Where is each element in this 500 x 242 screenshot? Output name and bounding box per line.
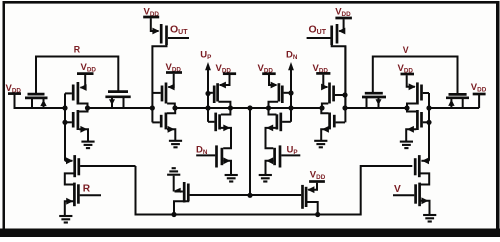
wire M23 drain to M24 gate <box>190 194 302 196</box>
svg-text:DN: DN <box>196 145 208 157</box>
wire inverter1 out to INV2 in <box>88 107 153 109</box>
transistor M6 (NMOS of inverter2) <box>152 108 175 140</box>
node inverter2 output <box>172 105 177 110</box>
ground inverter1m <box>400 142 413 149</box>
power VDD inverter1 <box>77 62 96 74</box>
node label UP top <box>200 50 211 62</box>
node inverter1m output <box>404 105 409 110</box>
power VDD inverter1m <box>398 63 415 75</box>
ground symbol inverted above M23 <box>167 168 180 191</box>
node label DN top <box>286 50 298 62</box>
node UP rail node-row junction <box>205 105 210 110</box>
wire bottom rail <box>136 166 413 215</box>
node label DN gate <box>196 145 208 157</box>
node inverter1 gate-NMOS junction <box>62 120 67 125</box>
power VDD branch3 <box>216 63 237 75</box>
transistor M22 (lower left chain, gate R) <box>65 183 101 215</box>
node inverter2 input <box>150 105 155 110</box>
node inverter2m input <box>342 105 347 110</box>
ground branch3 <box>225 175 238 182</box>
wire inverter1 gate rail <box>64 93 66 160</box>
wire inverter2 out to UP rail <box>175 107 208 109</box>
ground lower left <box>59 216 72 223</box>
transistor M14 (OUT device right) <box>332 19 346 108</box>
wire R net <box>36 57 118 95</box>
node label R gate <box>83 184 91 195</box>
transistor M9 (PMOS mid of branch3) <box>208 108 231 148</box>
transistor M21 (upper left chain) <box>65 155 136 184</box>
svg-text:DN: DN <box>286 50 298 62</box>
power VDD supply right <box>471 82 487 94</box>
ground lower right <box>423 215 436 222</box>
transistor M17 (MOS cap, gate to V) <box>362 93 386 108</box>
node M23 source on rail <box>171 212 176 217</box>
node inverter1 output <box>85 105 90 110</box>
svg-text:VDD: VDD <box>471 82 487 94</box>
ground inverter2 <box>169 141 182 148</box>
node center rail top <box>247 105 252 110</box>
node label OUT right <box>309 24 327 37</box>
wire node row UP-to-branch3 <box>208 107 230 109</box>
wire node row right of DN <box>291 107 322 109</box>
transistor M13 (NMOS UP of branch4) <box>266 128 301 174</box>
wire OUT stub left <box>168 37 189 39</box>
wire MO2 source rail <box>344 46 346 122</box>
node label V <box>403 45 409 55</box>
power VDD for M24 <box>309 170 326 182</box>
wire OUT stub right <box>307 37 331 39</box>
wire UP rail with arrow <box>205 62 211 122</box>
transistor M26 (lower right chain, gate V) <box>393 183 430 214</box>
node center rail bottom <box>247 193 252 198</box>
svg-text:V: V <box>403 45 409 55</box>
node label R <box>74 45 81 55</box>
svg-text:R: R <box>83 184 91 195</box>
node label OUT left <box>170 24 188 37</box>
node branch3 mid junction <box>228 105 233 110</box>
node label V gate <box>394 184 401 195</box>
wire center rail <box>249 108 251 195</box>
node inverter2m output <box>319 105 324 110</box>
wire DN rail with arrow <box>288 62 294 122</box>
transistor M16 (NMOS of inverter2m) <box>321 108 345 140</box>
node M24 source on rail <box>315 212 320 217</box>
wire node row center <box>230 107 291 109</box>
power VDD for M7 <box>143 7 159 19</box>
node DN rail upper junction <box>288 90 293 95</box>
transistor M20 (MOS cap, gate to V right) <box>446 94 469 108</box>
transistor M8 (PMOS top of branch3) <box>208 75 230 108</box>
transistor M18 (PMOS of inverter1m) <box>407 75 429 108</box>
svg-text:UP: UP <box>200 50 211 62</box>
wire node row under M1 <box>25 107 65 109</box>
power VDD for M14 <box>335 7 352 19</box>
transistor M1 (MOS cap, gate to R) <box>25 94 48 108</box>
node DN rail node-row junction <box>288 105 293 110</box>
wire inverter1m gate rail <box>428 93 430 161</box>
transistor M2 (MOS cap, gate to R) <box>105 92 130 108</box>
wire V net <box>373 57 458 95</box>
node branch4 mid junction <box>266 105 271 110</box>
wire VDD right stub <box>478 95 480 108</box>
power VDD supply left <box>6 83 22 95</box>
wire node row under T2m <box>362 107 407 109</box>
transistor M5 (PMOS of inverter2) <box>152 74 175 108</box>
ground branch4 <box>259 175 272 182</box>
transistor M24 (bottom right device) <box>303 183 318 215</box>
node inverter1m gate-NMOS junction <box>426 120 431 125</box>
transistor M4 (NMOS of inverter1) <box>65 108 88 141</box>
svg-text:OUT: OUT <box>170 24 188 37</box>
transistor M15 (PMOS of inverter2m) <box>321 75 345 108</box>
transistor M23 (bottom left device) <box>174 182 188 215</box>
node inverter2m gate upper <box>342 92 347 97</box>
svg-text:R: R <box>74 45 81 55</box>
transistor M11 (PMOS top of branch4) <box>269 75 291 108</box>
svg-text:VDD: VDD <box>81 62 97 74</box>
wire inverter2m in to T2m <box>345 107 362 109</box>
wire VDD stub to node row <box>15 95 26 109</box>
transistor M12 (PMOS mid of branch4) <box>266 108 291 148</box>
ground inverter2m <box>314 141 327 148</box>
ground inverter1 <box>81 142 94 149</box>
power VDD branch4 <box>258 63 276 75</box>
svg-text:V: V <box>394 184 401 195</box>
node inverter1m input <box>426 105 431 110</box>
transistor M10 (NMOS DN of branch3) <box>196 128 231 174</box>
svg-text:VDD: VDD <box>335 7 351 19</box>
node inverter1 input <box>62 105 67 110</box>
transistor M19 (NMOS of inverter1m) <box>406 108 429 141</box>
power VDD inverter2 <box>166 62 183 74</box>
svg-text:UP: UP <box>287 145 298 157</box>
transistor M7 (OUT device left) <box>151 18 167 122</box>
node UP rail upper junction <box>205 91 210 96</box>
transistor M25 (upper right chain) <box>415 155 429 184</box>
node label UP gate <box>287 145 298 157</box>
wire node row right outer <box>429 107 479 109</box>
power VDD inverter2m <box>313 63 331 75</box>
svg-text:VDD: VDD <box>310 170 326 182</box>
transistor M3 (PMOS of inverter1) <box>65 75 88 108</box>
svg-text:OUT: OUT <box>309 24 327 37</box>
